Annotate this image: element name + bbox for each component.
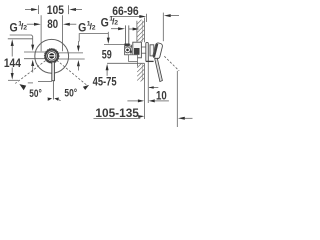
- svg-text:105-135: 105-135: [95, 106, 139, 120]
- dimension 105 right arrowhead: [69, 8, 76, 11]
- inner circle: [47, 52, 56, 61]
- dimension 105 line left tail: [25, 9, 32, 11]
- svg-text:105: 105: [47, 3, 64, 17]
- center dot: [49, 53, 54, 58]
- text G1/2 left: [10, 20, 28, 34]
- left port outline top: [24, 51, 45, 53]
- wall upper hatch: [137, 20, 145, 43]
- lever centerline extension: [52, 81, 54, 100]
- escutcheon circle: [35, 39, 69, 73]
- svg-text:50°: 50°: [29, 88, 42, 100]
- svg-text:G: G: [101, 15, 109, 29]
- lever stem side view: [155, 58, 163, 81]
- label 59 arrow pointing down: [107, 32, 109, 39]
- right 50deg arc arrowhead at dashed line: [83, 85, 89, 90]
- escutcheon bottom shadow: [146, 60, 154, 62]
- dashed swing line side view: [164, 56, 179, 71]
- right port outline bottom: [58, 58, 85, 60]
- right port dimension line with down arrow: [78, 41, 80, 47]
- dashed swing line left 50deg: [15, 61, 45, 84]
- left 50deg arc arrowhead at dashed line: [19, 84, 26, 90]
- sleeve through wall: [141, 46, 145, 48]
- wall lower block: [144, 63, 146, 119]
- svg-text:59: 59: [102, 48, 112, 62]
- svg-text:2: 2: [114, 19, 118, 26]
- svg-text:66-96: 66-96: [112, 4, 139, 18]
- wall lower hatch: [137, 63, 144, 81]
- right port dimension line with up arrow: [77, 60, 80, 66]
- left 50deg arrow at lever: [47, 99, 49, 100]
- handle boss: [150, 45, 154, 56]
- wall upper block: [136, 21, 138, 42]
- text G1/2 right front: [78, 20, 96, 34]
- left port outline bottom: [24, 58, 46, 60]
- center slot: [49, 55, 55, 56]
- dimension 105 right tail: [76, 9, 83, 11]
- lever handle front view: [52, 62, 55, 81]
- dashed swing line right 50deg: [57, 60, 87, 85]
- inlet stub pipe side view: [124, 25, 126, 43]
- spline gear teeth: [44, 49, 59, 64]
- svg-text:50°: 50°: [64, 88, 77, 100]
- svg-text:2: 2: [23, 25, 27, 32]
- right 50deg arrow at lever: [57, 99, 61, 101]
- dimension 105 left arrowhead: [31, 8, 38, 11]
- dimension 144 down arrow: [11, 73, 14, 80]
- branch line from 59 label to right port dimension: [79, 34, 108, 42]
- label 45-75 arrow pointing up: [106, 69, 108, 76]
- extension line left (x=41): [40, 15, 42, 51]
- dimension 105-135: [94, 118, 141, 120]
- reference line upper-left y=35: [10, 35, 33, 39]
- dimension 144 vertical line with up arrow: [11, 39, 14, 46]
- stub side tick: [131, 45, 133, 48]
- lever bottom extension line: [38, 80, 52, 82]
- side view: G1/2 leader arrow: [111, 28, 119, 30]
- dimension 105 right tick: [68, 5, 70, 14]
- stub nut: [124, 44, 129, 47]
- dimension 80 left arrow (leader from G1/2 left): [27, 23, 35, 25]
- dimension 105 left tick: [37, 5, 39, 14]
- right port outline top: [58, 52, 83, 54]
- extension line for 66-96 right: [162, 13, 164, 42]
- valve bottom piece: [129, 55, 138, 62]
- reference line 59 (valve top centerline): [104, 43, 130, 45]
- dimension 144 bottom extension line: [8, 79, 18, 81]
- svg-text:144: 144: [4, 56, 21, 70]
- dimension 80 right arrow: [63, 23, 70, 26]
- reference line upper-left y=38.8: [8, 38, 33, 40]
- left port dimension line with down arrow: [32, 39, 34, 46]
- valve body box: [133, 42, 142, 58]
- side view: wall leader arrow: [129, 28, 134, 30]
- text G1/2 side view: [101, 15, 119, 29]
- extension line right (x=62.6): [62, 15, 64, 51]
- escutcheon face pointer arrow: [149, 87, 158, 89]
- reference line 45-75 (valve bottom): [107, 62, 144, 64]
- left port dimension line with up arrow: [31, 60, 34, 66]
- svg-text:2: 2: [92, 24, 96, 31]
- svg-text:45-75: 45-75: [93, 74, 117, 88]
- escutcheon side view: [146, 42, 149, 61]
- extension line for 105-135 right: [176, 71, 178, 127]
- dimension 10: [127, 100, 139, 102]
- spline gear ring: [45, 50, 58, 63]
- svg-text:G: G: [10, 21, 18, 35]
- handle knob side view: [152, 42, 163, 59]
- svg-text:10: 10: [156, 89, 167, 103]
- svg-text:G: G: [78, 20, 86, 34]
- extension line for 66-96 left: [146, 14, 148, 22]
- dimension 66-96: [112, 16, 141, 18]
- fitting box with union circle: [125, 46, 131, 55]
- svg-text:80: 80: [47, 17, 58, 31]
